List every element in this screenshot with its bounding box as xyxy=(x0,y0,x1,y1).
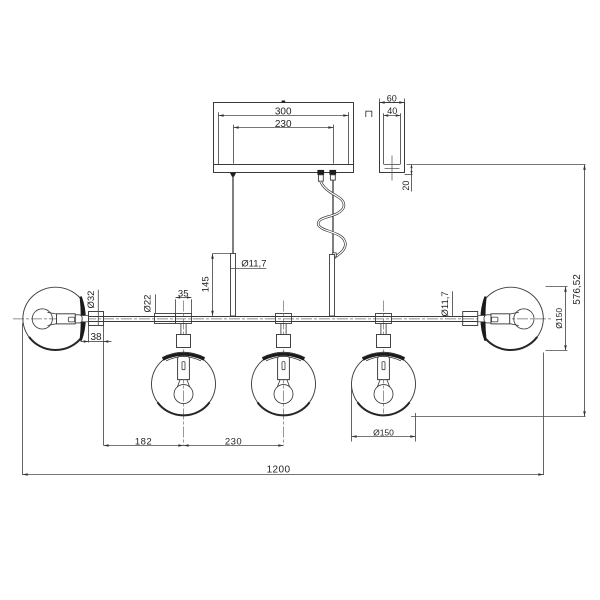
dim 300 extension lines xyxy=(218,112,220,164)
centerline lamp 2 xyxy=(283,301,285,446)
svg-text:1200: 1200 xyxy=(267,464,291,475)
left suspension wire xyxy=(232,177,234,254)
label dia 11,7 left leader xyxy=(231,268,266,270)
dim 230 line xyxy=(234,127,334,129)
dim 230 extension lines xyxy=(233,125,235,164)
lamp 2 xyxy=(252,314,316,416)
label dia 32 leader xyxy=(97,290,99,326)
canopy side centerline xyxy=(391,156,393,181)
svg-text:145: 145 xyxy=(201,276,212,292)
left suspension nub xyxy=(230,173,236,177)
right side globe (mirrored) xyxy=(463,287,544,350)
coiled cable outer xyxy=(318,181,345,257)
svg-text:Ø22: Ø22 xyxy=(143,295,154,313)
svg-text:35: 35 xyxy=(178,288,189,299)
svg-text:60: 60 xyxy=(387,93,397,103)
dim 1200 ext lines xyxy=(22,323,24,475)
dim 182 line xyxy=(104,445,184,447)
label dia 22 leader xyxy=(155,294,157,313)
centerline horizontal through bar and side globes xyxy=(13,318,553,320)
main bar top line xyxy=(89,316,478,318)
dim dia150 right ext lines xyxy=(546,286,568,288)
dim dia150 bottom line xyxy=(352,436,416,438)
label dia 11,7 right leader xyxy=(452,291,454,316)
dim 576,52 line xyxy=(584,165,586,417)
dim 230 bottom line xyxy=(184,445,284,447)
lamp 1 xyxy=(152,314,216,416)
dim 38 ext lines xyxy=(88,326,90,343)
cord connector right cap xyxy=(329,170,336,175)
svg-text:Ø150: Ø150 xyxy=(554,308,564,329)
svg-text:Ø32: Ø32 xyxy=(86,291,97,309)
long extension line top (576.52 top reference) xyxy=(407,164,586,166)
centerline lamp 1 xyxy=(183,301,185,446)
dim 576,52 bottom ext xyxy=(411,416,586,418)
canopy top nub xyxy=(282,101,286,103)
dim dia150 right line xyxy=(565,287,567,351)
dim 1200 line xyxy=(23,474,544,476)
staple symbol xyxy=(366,111,372,117)
dim 40 line xyxy=(384,115,401,117)
left side globe xyxy=(23,287,104,350)
canopy side inner walls xyxy=(383,113,385,164)
left suspension rod xyxy=(231,254,236,317)
main bar bottom line xyxy=(89,321,478,323)
right rod top clamp xyxy=(333,253,337,257)
cord connector left body xyxy=(318,175,323,181)
centerline lamp 3 xyxy=(383,301,385,414)
cord connector left cap xyxy=(317,170,324,175)
dim 35 line xyxy=(176,297,192,299)
dim 20 bottom short ext xyxy=(405,174,413,176)
svg-text:20: 20 xyxy=(401,181,411,191)
dim 145 top ext xyxy=(213,253,231,255)
svg-text:230: 230 xyxy=(275,119,292,130)
svg-text:38: 38 xyxy=(90,332,102,343)
dim 38 line with outside arrows xyxy=(81,341,89,343)
svg-text:300: 300 xyxy=(275,107,292,118)
right suspension rod xyxy=(330,255,335,317)
canopy side view xyxy=(380,103,405,173)
canopy side inner bottom line xyxy=(384,164,401,166)
svg-text:576,52: 576,52 xyxy=(572,274,583,305)
canopy front inner bottom line xyxy=(214,164,354,166)
dim 20 vertical line xyxy=(411,165,413,192)
svg-text:230: 230 xyxy=(225,437,242,448)
dim 35 ext lines xyxy=(175,299,177,313)
svg-text:40: 40 xyxy=(387,106,397,116)
dim 60 ticks and arrows xyxy=(379,99,381,103)
dim dia150 bottom ext lines xyxy=(351,386,353,442)
lamp 3 xyxy=(352,314,416,416)
svg-text:Ø11,7: Ø11,7 xyxy=(440,291,451,316)
canopy front view xyxy=(214,103,354,173)
cord connector right body xyxy=(330,175,335,180)
sleeve dia22 on bar xyxy=(155,314,176,324)
svg-text:Ø11,7: Ø11,7 xyxy=(241,258,266,269)
svg-text:182: 182 xyxy=(135,437,152,448)
right suspension wire xyxy=(332,180,334,254)
dim 300 line xyxy=(219,115,349,117)
coiled cable core xyxy=(318,181,345,257)
svg-text:Ø150: Ø150 xyxy=(373,427,394,437)
dim 145 line xyxy=(212,254,214,316)
